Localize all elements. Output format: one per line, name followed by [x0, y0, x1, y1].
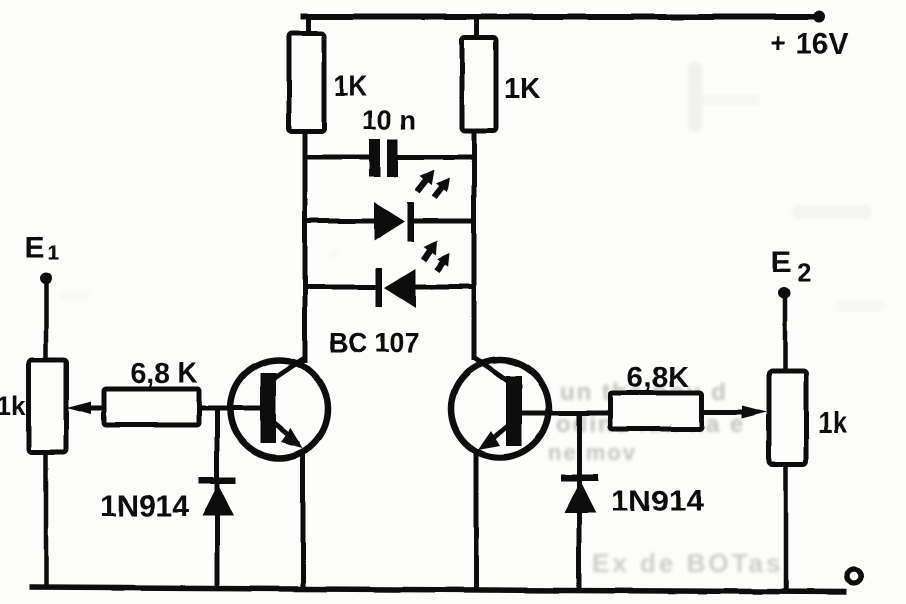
- wire LED2 rung right: [412, 285, 476, 290]
- wire left column (R1 bottom to Q1 collector): [303, 131, 308, 363]
- label E1: [25, 231, 59, 264]
- label R2 1K: [504, 72, 540, 105]
- resistor R3 6,8K (left): [104, 389, 199, 425]
- wire Q2 base lead: [520, 411, 610, 416]
- node E2 terminal dot: [778, 287, 790, 299]
- wire right column (R2 bottom to Q2 collector): [472, 131, 477, 360]
- wire D1 branch (base node to ground): [215, 408, 220, 589]
- svg-text:+: +: [770, 28, 786, 58]
- svg-text:1K: 1K: [334, 70, 367, 103]
- wire capacitor rung right: [398, 155, 476, 160]
- wire rail to R1: [306, 17, 311, 36]
- label P1 1k: [0, 391, 27, 421]
- label D1 1N914: [100, 490, 189, 523]
- label node 0: [847, 569, 861, 583]
- resistor R4 6,8K (right): [610, 393, 702, 429]
- label R1 1K: [334, 70, 367, 103]
- svg-text:1k: 1k: [818, 405, 848, 440]
- svg-text:Ex de BOTas: Ex de BOTas: [592, 548, 783, 578]
- wire LED1 rung left: [303, 219, 378, 224]
- wire D2 branch (base node to ground): [577, 413, 582, 591]
- label D2 1N914: [611, 485, 704, 518]
- label C1 10n: [362, 105, 416, 135]
- wire LED2 rung left: [303, 285, 378, 290]
- potentiometer P2 1k: [769, 371, 806, 464]
- transistor Q2 BC107 (right): [451, 358, 549, 458]
- svg-text:E: E: [25, 231, 45, 264]
- svg-text:1N914: 1N914: [100, 490, 189, 523]
- diode D1 1N914 (left, points up): [199, 477, 236, 516]
- node +16V terminal dot: [813, 11, 825, 23]
- wire ground rail 0V: [29, 588, 847, 593]
- label R4 6,8K: [627, 362, 689, 394]
- LED D4 (points left): [376, 268, 416, 308]
- svg-text:10 n: 10 n: [362, 105, 416, 135]
- resistor R1 1K: [289, 34, 324, 131]
- resistor R2 1K: [462, 38, 496, 131]
- svg-text:1k: 1k: [0, 391, 27, 421]
- label BC107: [329, 327, 419, 358]
- wire Q1 emitter to ground rail: [301, 452, 306, 590]
- svg-text:1K: 1K: [504, 72, 540, 105]
- svg-text:1: 1: [48, 242, 59, 264]
- wire P1 top to E1 terminal: [44, 283, 49, 362]
- wire R3 to P1 wiper arrow: [66, 401, 106, 414]
- wire capacitor rung left: [303, 155, 371, 160]
- label +16V: [770, 28, 848, 61]
- svg-text:BC 107: BC 107: [329, 327, 419, 358]
- wire LED1 rung right: [409, 219, 476, 224]
- label P2 1k: [818, 405, 848, 440]
- wire Q1 base lead: [199, 406, 262, 411]
- LED D3 (points right): [374, 202, 414, 242]
- wire P1 bottom to ground rail: [44, 452, 49, 589]
- svg-text:6,8K: 6,8K: [627, 362, 689, 394]
- wire P2 top to E2 terminal: [783, 296, 788, 373]
- potentiometer P1 1k: [29, 360, 66, 452]
- wire R4 to P2 wiper arrow: [702, 406, 767, 419]
- wire Q2 emitter to ground rail: [474, 453, 479, 591]
- svg-text:1N914: 1N914: [611, 485, 704, 518]
- LED D3 light arrows: [415, 170, 450, 200]
- svg-text:16V: 16V: [796, 28, 848, 61]
- svg-text:2: 2: [797, 257, 811, 287]
- svg-text:6,8 K: 6,8 K: [131, 358, 197, 390]
- svg-text:ne mov: ne mov: [548, 440, 637, 465]
- diode D2 1N914 (right, points up): [561, 474, 598, 513]
- svg-text:E: E: [771, 244, 792, 279]
- capacitor C1 10n: [369, 139, 398, 177]
- LED D4 light arrows: [421, 240, 450, 273]
- transistor Q1 BC107 (left): [230, 357, 328, 458]
- label E2: [771, 244, 811, 287]
- wire P2 bottom to ground rail: [784, 464, 789, 592]
- wire rail to R2: [475, 17, 480, 40]
- label R3 6,8K: [131, 358, 197, 390]
- wire top supply rail: [300, 14, 820, 20]
- node E1 terminal dot: [40, 272, 52, 284]
